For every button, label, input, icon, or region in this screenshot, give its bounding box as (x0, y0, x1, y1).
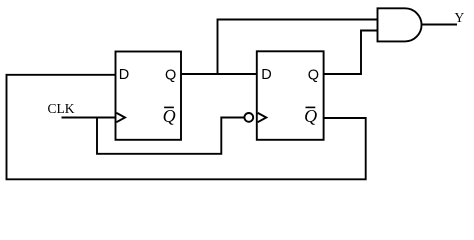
svg-text:D: D (261, 67, 271, 83)
svg-text:CLK: CLK (48, 101, 75, 116)
svg-text:D: D (119, 67, 129, 83)
svg-text:Q: Q (163, 106, 176, 126)
svg-text:Q: Q (304, 106, 317, 126)
svg-text:Q: Q (308, 68, 319, 84)
svg-text:Q: Q (165, 68, 176, 84)
svg-text:Y: Y (455, 10, 465, 25)
